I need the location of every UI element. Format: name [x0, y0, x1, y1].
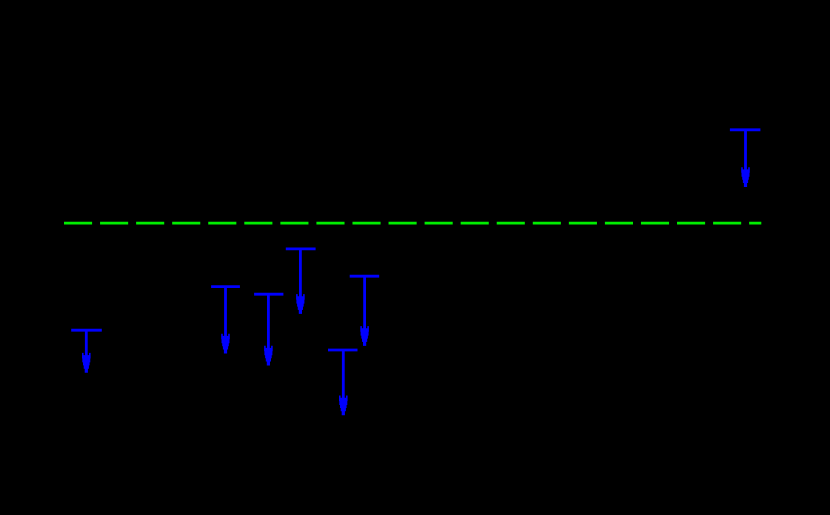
upper limit arrow 5: [328, 350, 358, 415]
upper limit arrow 6: [350, 276, 380, 346]
upper limit arrow 7: [730, 130, 761, 187]
upper limit arrow 4: [286, 249, 316, 314]
upper limit arrow 1: [71, 330, 102, 373]
green dashed reference line: [64, 222, 761, 225]
upper limit arrow 3: [254, 294, 283, 365]
upper limit arrow 2: [211, 287, 240, 354]
